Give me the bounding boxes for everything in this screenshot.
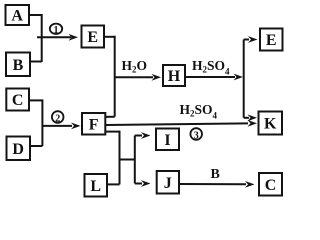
wire node vertical to K and E2 [243,40,245,118]
arrow F to K (3) [105,120,257,127]
box B [6,53,30,77]
wire F bottom stub [105,131,119,133]
svg-text:I: I [164,132,170,149]
wire E-F vertical [114,36,116,117]
arrow 2 to F [42,123,80,130]
arrow H2O to H [115,74,161,81]
box C2 [259,173,282,196]
arrow node to K [244,114,257,121]
wire L to junction [107,183,120,185]
box E2 [260,29,283,51]
box J [157,171,179,194]
wire CD vertical [41,99,43,146]
label circled 1 [50,24,62,37]
svg-text:2: 2 [55,113,60,124]
svg-text:K: K [264,116,277,133]
label circled 2 [52,111,64,124]
wire D to junction [30,145,42,147]
svg-text:3: 3 [194,130,199,141]
svg-text:C: C [265,177,277,194]
arrow H to node [185,74,243,81]
svg-text:A: A [11,8,23,25]
wire C to junction [29,99,42,101]
arrow to J [135,180,151,187]
arrow node to E2 [244,36,258,43]
box H [163,65,185,86]
wire A to junction [29,14,42,16]
wire split vertical [134,136,136,184]
svg-text:C: C [12,92,24,109]
wire AB vertical [41,14,43,62]
svg-text:F: F [89,116,99,133]
box L [85,174,108,197]
svg-text:1: 1 [54,25,59,36]
svg-text:J: J [164,175,172,192]
box D [7,137,31,161]
box C [6,89,29,111]
box K [259,112,283,135]
svg-text:B: B [211,167,220,182]
svg-text:E: E [266,32,277,49]
arrow 1 to E [37,34,78,41]
box A [6,5,30,25]
svg-text:H: H [168,68,181,85]
wire E right [104,36,115,38]
wire F down vertical [119,131,121,185]
svg-text:B: B [13,57,24,74]
arrow J to C2 (B) [179,181,255,188]
svg-text:D: D [12,141,24,158]
arrow to I [135,132,151,139]
box E1 [82,26,105,48]
wire B to junction [30,61,42,63]
box I [156,129,179,151]
wire F top stub [105,116,114,118]
label circled 3 [190,128,202,141]
svg-text:L: L [90,178,101,195]
wire bridge [120,159,135,161]
box F [82,113,105,135]
svg-text:E: E [87,29,98,46]
